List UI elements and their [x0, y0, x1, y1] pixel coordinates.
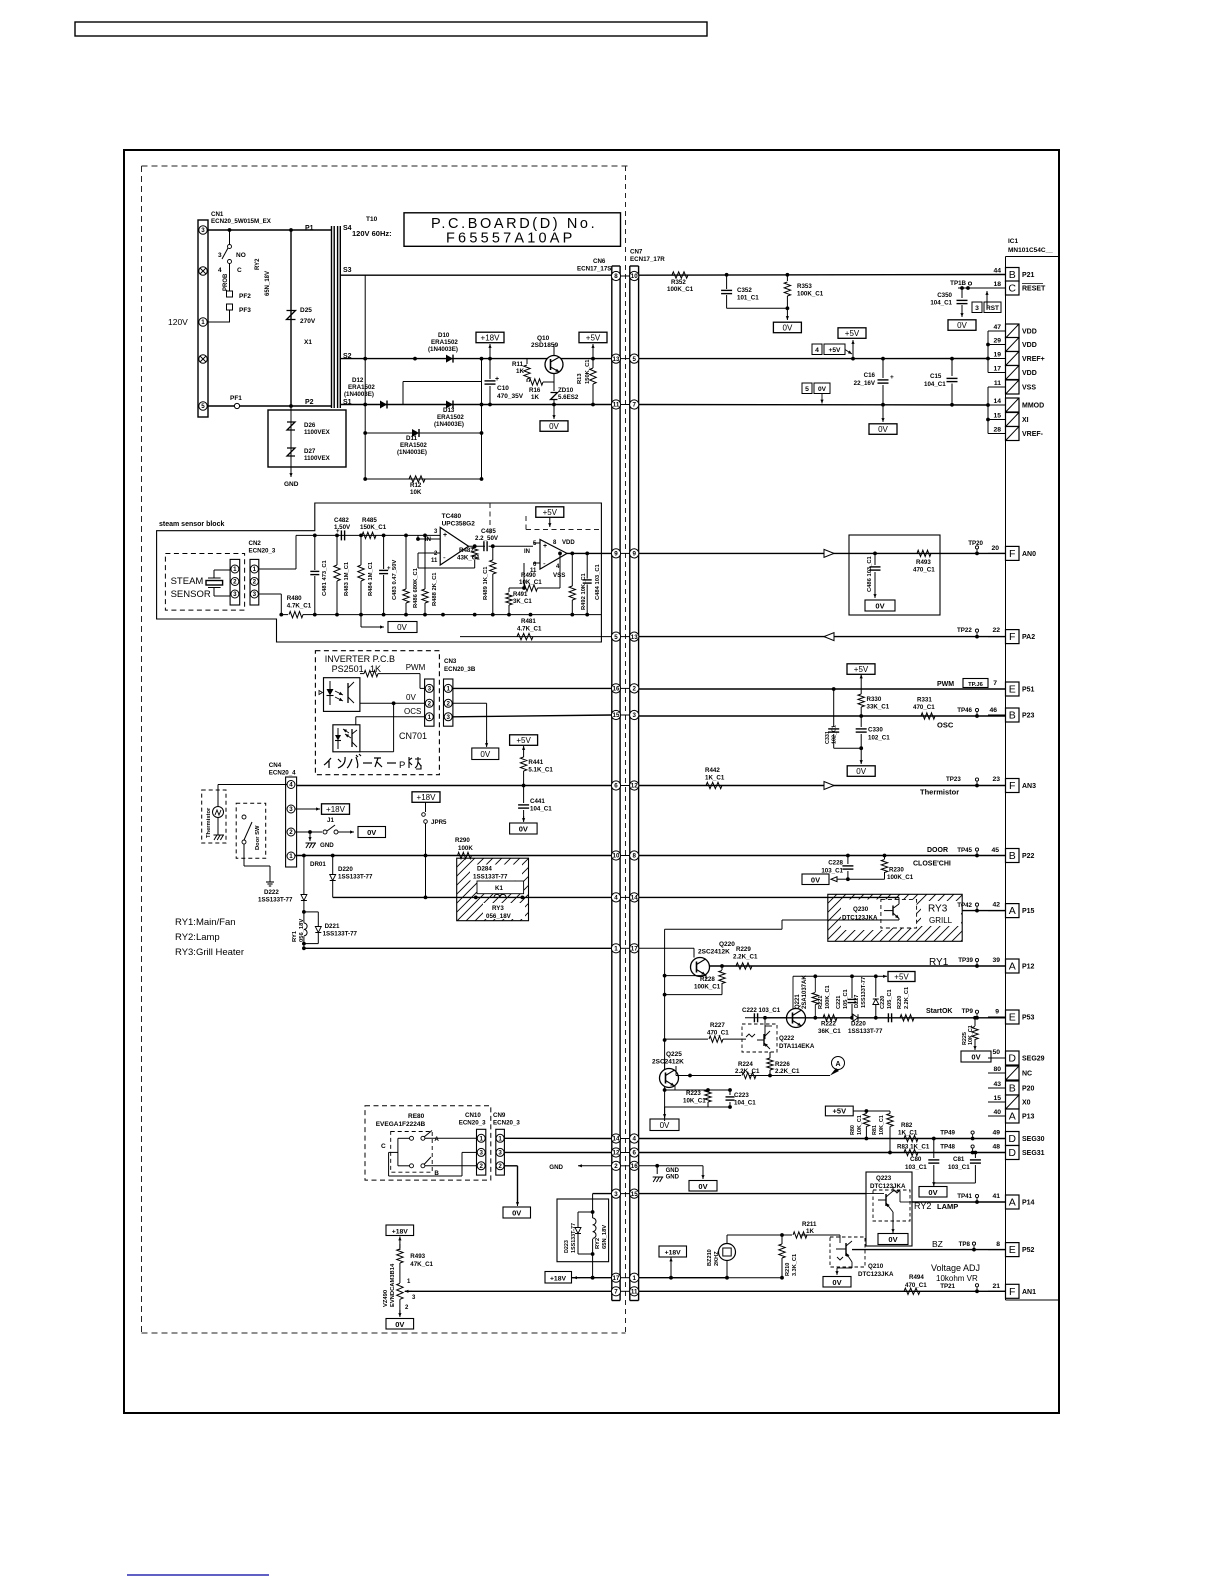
svg-text:TP48: TP48 [940, 1144, 955, 1151]
capacitor C15 104_C1 [924, 359, 958, 405]
svg-text:PS2501: PS2501 [332, 664, 364, 674]
diode D12 ERA1502 (1N4003E) [344, 377, 387, 409]
buzzer BZ210 2KHZ [707, 1235, 736, 1278]
svg-text:C: C [1008, 283, 1016, 295]
svg-text:ECN17_17R: ECN17_17R [630, 256, 665, 263]
svg-text:1SS133T-77: 1SS133T-77 [323, 931, 358, 938]
svg-text:IC1: IC1 [1008, 238, 1019, 245]
svg-text:4.7K_C1: 4.7K_C1 [287, 603, 312, 610]
label OSC [937, 707, 997, 730]
svg-text:43: 43 [993, 1081, 1001, 1088]
svg-text:12: 12 [631, 783, 638, 790]
svg-text:F: F [1009, 780, 1015, 792]
svg-text:2KHZ: 2KHZ [714, 1251, 720, 1266]
bus CN6 ECN17-17S [577, 258, 620, 1301]
svg-text:2SD1859: 2SD1859 [531, 342, 558, 349]
svg-text:10K_C1: 10K_C1 [879, 1115, 885, 1135]
svg-text:100K_C1: 100K_C1 [667, 286, 694, 293]
capacitor C81 103_C1 [934, 1153, 981, 1184]
wire RY1 row left [304, 947, 612, 949]
svg-text:R80: R80 [850, 1125, 856, 1135]
svg-text:SEG31: SEG31 [1022, 1150, 1045, 1157]
svg-text:50: 50 [992, 1049, 1000, 1056]
svg-text:R11: R11 [512, 361, 524, 368]
wire SEG30 row [639, 1137, 1006, 1141]
capacitor C330 102_C1 [856, 716, 891, 750]
svg-text:C80: C80 [910, 1156, 922, 1163]
svg-text:3K_C1: 3K_C1 [513, 599, 532, 605]
svg-text:2SC2412K: 2SC2412K [652, 1059, 684, 1066]
svg-text:BZ: BZ [932, 1239, 943, 1249]
svg-text:C16: C16 [864, 372, 876, 379]
thermistor [206, 785, 224, 841]
svg-text:P: P [399, 760, 405, 771]
power +5V R441 [510, 735, 538, 757]
door switch [242, 815, 274, 886]
resistor R353 100K_C1 [784, 275, 824, 309]
wire PWM jog [410, 674, 425, 689]
svg-text:470_C1: 470_C1 [905, 1282, 927, 1289]
wire Q221 base [765, 1018, 772, 1039]
connector CN9 ECN20-3 [493, 1112, 520, 1175]
svg-text:3: 3 [289, 806, 293, 813]
svg-text:GRILL: GRILL [929, 916, 953, 925]
transistor Q210 DTC123JKA dashed [830, 1235, 894, 1278]
transformer T10 [291, 216, 392, 408]
svg-text:RY2: RY2 [595, 1238, 601, 1249]
svg-text:CN7: CN7 [630, 249, 643, 256]
svg-text:P13: P13 [1022, 1114, 1035, 1121]
svg-text:1100VEX: 1100VEX [304, 429, 331, 436]
svg-text:49: 49 [992, 1130, 1000, 1137]
svg-text:RY1: RY1 [929, 957, 949, 968]
svg-text:P23: P23 [1022, 713, 1035, 720]
box C486/R493 [849, 535, 940, 615]
0V Q210 [823, 1262, 852, 1287]
gnd J1 [306, 832, 335, 849]
opamp top rail [313, 534, 440, 538]
svg-text:VSS: VSS [553, 572, 565, 579]
svg-text:+18V: +18V [550, 1276, 567, 1283]
svg-text:TP41: TP41 [957, 1193, 972, 1200]
svg-text:CN4: CN4 [269, 762, 282, 769]
svg-text:65N_18V: 65N_18V [265, 271, 271, 296]
arrow PA2 [824, 633, 834, 641]
svg-text:TC480: TC480 [442, 513, 462, 520]
relay inner dashed [391, 1132, 433, 1173]
svg-text:+5V: +5V [854, 665, 869, 674]
capacitor C228 103_C1 [821, 856, 853, 880]
svg-text:3: 3 [428, 686, 432, 693]
svg-text:DOOR: DOOR [927, 847, 948, 854]
svg-text:7: 7 [632, 402, 636, 409]
varistor D27 1100VEX [287, 448, 331, 462]
svg-text:C352: C352 [737, 287, 752, 294]
0V C80 C81 [919, 1182, 947, 1197]
resistor R211 1K [793, 1221, 817, 1238]
steam sensor element [206, 570, 230, 596]
pin 23 AN3 [988, 779, 1036, 793]
resistor R80 10K_C1 [850, 1111, 870, 1140]
svg-text:7: 7 [993, 680, 997, 687]
svg-text:1SS133T-77: 1SS133T-77 [473, 874, 508, 881]
svg-text:C221: C221 [836, 996, 842, 1009]
relay RY2 box [557, 1199, 609, 1262]
svg-text:R223: R223 [686, 1090, 701, 1097]
svg-text:3: 3 [632, 712, 636, 719]
svg-text:65N_18V: 65N_18V [602, 1225, 608, 1249]
svg-text:1K: 1K [531, 394, 539, 401]
svg-text:P1: P1 [305, 225, 314, 232]
tp49 [940, 1130, 1000, 1141]
svg-text:100K_C1: 100K_C1 [694, 984, 721, 991]
test point TP20 [968, 540, 999, 555]
resistor R484 1M_C1 [358, 535, 374, 614]
svg-text:X0: X0 [1022, 1100, 1031, 1107]
svg-text:20: 20 [991, 545, 999, 552]
power +5V opamp [536, 507, 564, 527]
svg-text:1: 1 [428, 714, 432, 721]
svg-text:R442: R442 [705, 767, 720, 774]
pin 9 P53 [988, 1010, 1035, 1024]
svg-text:0V: 0V [928, 1188, 937, 1197]
svg-text:0V: 0V [971, 1053, 980, 1062]
svg-text:steam sensor block: steam sensor block [159, 521, 224, 528]
svg-text:VREF+: VREF+ [1022, 356, 1045, 363]
svg-text:R221: R221 [818, 996, 824, 1009]
svg-text:R227: R227 [710, 1022, 725, 1029]
svg-text:1100VEX: 1100VEX [304, 455, 331, 462]
svg-text:R330: R330 [867, 696, 882, 703]
svg-text:F: F [1009, 1286, 1015, 1298]
resistor R230 100K_C1 [881, 856, 913, 882]
svg-text:15: 15 [993, 1095, 1001, 1102]
transistor Q10 2SD1859 [531, 335, 563, 382]
connector CN10 ECN20-3 [459, 1112, 486, 1175]
svg-text:0V: 0V [480, 750, 490, 759]
svg-text:P22: P22 [1022, 853, 1035, 860]
label INVERTER P.C.B [325, 654, 395, 664]
node A [830, 1057, 845, 1076]
svg-text:103_C1: 103_C1 [905, 1164, 927, 1171]
svg-text:D11: D11 [406, 435, 418, 442]
svg-text:(1N4003E): (1N4003E) [397, 449, 427, 456]
resistor R225 10K_C1 [962, 1016, 978, 1048]
svg-text:R492 10K_C1: R492 10K_C1 [581, 572, 587, 610]
svg-text:80: 80 [993, 1066, 1001, 1073]
capacitor C484 103_C1 [583, 553, 601, 614]
svg-text:ECN20_3B: ECN20_3B [444, 666, 476, 673]
label inverter japanese [324, 754, 421, 771]
capacitor C221 105_C1 [836, 976, 857, 1018]
wire Q220 collector RY1 [709, 957, 1006, 968]
svg-text:CN10: CN10 [465, 1112, 481, 1119]
svg-text:11: 11 [994, 380, 1001, 387]
svg-text:TP.J6: TP.J6 [968, 682, 983, 688]
svg-text:2: 2 [498, 1163, 502, 1170]
svg-text:1: 1 [446, 686, 450, 693]
svg-text:10kohm VR: 10kohm VR [936, 1274, 978, 1283]
bracket VSS group [986, 387, 990, 434]
svg-text:8: 8 [996, 1241, 1000, 1248]
svg-text:C481 473_C1: C481 473_C1 [322, 559, 328, 596]
svg-text:CN9: CN9 [493, 1112, 506, 1119]
svg-text:ECN17_17S: ECN17_17S [577, 266, 611, 273]
svg-text:0V: 0V [395, 1320, 404, 1329]
svg-text:TP42: TP42 [957, 902, 972, 909]
svg-text:IN: IN [524, 549, 530, 555]
svg-text:0V: 0V [406, 693, 416, 702]
svg-text:P21: P21 [1022, 272, 1035, 279]
wire +18V row [571, 1276, 729, 1280]
label PS2501 1K [332, 664, 381, 674]
svg-text:D227: D227 [854, 995, 860, 1008]
svg-text:100K: 100K [458, 845, 473, 852]
svg-text:9: 9 [614, 551, 618, 558]
svg-text:D: D [1008, 1133, 1016, 1145]
svg-text:A: A [1009, 961, 1016, 973]
svg-text:1: 1 [289, 853, 293, 860]
0V below C441 [510, 816, 537, 834]
svg-text:VDD: VDD [1022, 342, 1037, 349]
svg-text:Q230: Q230 [853, 906, 869, 913]
capacitor C350 104_C1 [930, 288, 967, 315]
svg-text:IN: IN [425, 537, 431, 543]
svg-text:RY1: RY1 [292, 930, 298, 942]
resistor R331 470_C1 [913, 697, 935, 720]
svg-text:C81: C81 [953, 1156, 965, 1163]
svg-text:+18V: +18V [665, 1250, 682, 1257]
resistor R489 1K_C1 [483, 546, 496, 614]
header box [75, 22, 707, 36]
svg-text:P52: P52 [1022, 1247, 1035, 1254]
0V in box [865, 583, 895, 611]
resistor R227 470_C1 [665, 1022, 746, 1042]
svg-text:0V: 0V [519, 825, 528, 834]
svg-text:B: B [1009, 710, 1016, 722]
svg-text:CN2: CN2 [249, 540, 262, 547]
bracket VDD group [986, 331, 990, 373]
svg-text:+: + [890, 374, 894, 381]
svg-text:9: 9 [632, 551, 636, 558]
svg-text:R490: R490 [521, 572, 536, 579]
capacitor C352 101_C1 [721, 275, 759, 309]
svg-text:2.2K_C1: 2.2K_C1 [904, 987, 910, 1009]
svg-text:R83 1K_C1: R83 1K_C1 [897, 1144, 930, 1151]
svg-text:29: 29 [993, 338, 1001, 345]
svg-text:C486 103_C1: C486 103_C1 [867, 555, 873, 592]
capacitor C483 0.47_50V [379, 535, 398, 614]
svg-text:2.2K_C1: 2.2K_C1 [733, 954, 758, 961]
svg-text:D25: D25 [300, 307, 312, 314]
svg-text:9: 9 [995, 1009, 999, 1016]
svg-text:40: 40 [993, 1109, 1001, 1116]
svg-text:2: 2 [253, 579, 257, 586]
svg-text:VDD: VDD [1022, 370, 1037, 377]
svg-text:18: 18 [993, 281, 1001, 288]
svg-text:14: 14 [993, 398, 1001, 405]
svg-text:T10: T10 [366, 216, 378, 223]
svg-text:+: + [543, 543, 547, 550]
svg-text:CLOSE'CHI: CLOSE'CHI [913, 861, 951, 868]
IC U1 IC1 MN101C54C [1006, 238, 1060, 1300]
svg-text:0V: 0V [367, 828, 376, 837]
svg-text:48: 48 [992, 1144, 1000, 1151]
svg-text:19: 19 [993, 352, 1001, 359]
resistor R486 680K_C1 [403, 535, 419, 614]
svg-text:10K_C1: 10K_C1 [519, 579, 542, 586]
svg-text:ZD10: ZD10 [558, 387, 574, 394]
svg-text:+5V: +5V [894, 972, 909, 981]
svg-text:10K: 10K [410, 489, 422, 496]
resistor R485 150K_C1 [360, 517, 387, 539]
relay D284 hatched box [394, 858, 592, 921]
resistor R493 47K_C1 [397, 1244, 434, 1283]
svg-text:Q220: Q220 [719, 941, 735, 948]
wire Q221 top [793, 974, 878, 1009]
relay RY3 GRILL hatched box [781, 894, 1017, 941]
wire CN1-5 to P2 (PF1) [208, 395, 292, 409]
wire AN3 row right [639, 785, 1006, 787]
svg-text:PA2: PA2 [1022, 634, 1035, 641]
capacitor C222 103_C1 [742, 1007, 786, 1022]
svg-text:4.7K_C1: 4.7K_C1 [517, 626, 542, 633]
svg-text:TP1B: TP1B [950, 280, 966, 287]
svg-text:14: 14 [631, 895, 638, 902]
resistor R83 1K_C1 [897, 1144, 930, 1156]
svg-text:102_C1: 102_C1 [832, 725, 838, 744]
svg-text:B: B [1009, 1083, 1016, 1095]
svg-text:0V: 0V [783, 323, 793, 332]
svg-text:PWM: PWM [937, 681, 954, 688]
pin 8 P52 [988, 1243, 1035, 1257]
svg-text:R81: R81 [872, 1125, 878, 1135]
svg-text:C485: C485 [481, 528, 496, 535]
resistor R483 1M_C1 [334, 535, 350, 614]
power +5V R330 [847, 664, 875, 683]
svg-text:OCS: OCS [404, 707, 421, 716]
svg-text:Q221: Q221 [795, 994, 801, 1009]
svg-text:DR01: DR01 [310, 861, 326, 868]
wire CN9-2 gnd [503, 1166, 531, 1218]
svg-text:17: 17 [613, 1275, 620, 1282]
wire RESET row [958, 286, 1006, 290]
opamp A input wiring [416, 535, 475, 568]
svg-text:R441: R441 [528, 759, 543, 766]
svg-text:17: 17 [631, 946, 638, 953]
svg-text:RST: RST [986, 305, 999, 312]
resistor R221 100K_C1 [812, 976, 831, 1018]
svg-text:2SA1037AK: 2SA1037AK [802, 975, 808, 1009]
resistor R352 100K_C1 [667, 272, 694, 293]
test point TP22 [957, 627, 1000, 638]
svg-text:VSS: VSS [1022, 385, 1036, 392]
svg-text:41: 41 [992, 1193, 1000, 1200]
svg-text:3: 3 [201, 227, 205, 234]
svg-text:GND: GND [666, 1175, 680, 1181]
svg-text:R13: R13 [577, 373, 583, 384]
svg-text:F65557A10AP: F65557A10AP [446, 231, 576, 247]
svg-text:+: + [495, 376, 499, 383]
svg-text:1SS133T-77: 1SS133T-77 [338, 874, 373, 881]
pin 17 VDD [988, 366, 1037, 380]
svg-text:100K_C1: 100K_C1 [797, 291, 824, 298]
wire opto to 0V line [360, 701, 425, 751]
wire Q220 up [665, 920, 828, 929]
jumper J1 [323, 817, 386, 838]
svg-text:Door SW: Door SW [255, 825, 261, 850]
svg-text:10K_C1: 10K_C1 [968, 1025, 974, 1045]
svg-text:150K_C1: 150K_C1 [360, 524, 387, 531]
svg-text:C10: C10 [497, 385, 509, 392]
wire P15 out [957, 902, 1005, 913]
svg-text:VDD: VDD [1022, 329, 1037, 336]
capacitor C10 470_35V [485, 359, 524, 405]
svg-text:StartOK: StartOK [926, 1008, 952, 1015]
svg-text:ECN20_3: ECN20_3 [249, 548, 276, 555]
svg-text:16: 16 [631, 1163, 638, 1170]
label PWM P51 [937, 679, 997, 689]
svg-text:VREF-: VREF- [1022, 431, 1044, 438]
pin 29 VDD [988, 338, 1037, 352]
svg-text:6: 6 [614, 783, 618, 790]
resistor R229 2.2K_C1 [733, 946, 758, 969]
svg-text:TP39: TP39 [958, 957, 973, 964]
svg-text:5: 5 [614, 634, 618, 641]
svg-text:R486 680K_C1: R486 680K_C1 [413, 567, 419, 608]
svg-text:3: 3 [614, 1191, 618, 1198]
wire Q225 emitter [663, 1085, 675, 1092]
svg-text:A: A [835, 1061, 840, 1068]
box D26 D27 [268, 410, 346, 467]
steam sensor dashed box [165, 554, 244, 611]
svg-text:R481: R481 [521, 618, 536, 625]
resistor R487 43K_C1 [457, 544, 485, 561]
svg-text:0V: 0V [878, 425, 888, 434]
svg-text:2: 2 [446, 701, 450, 708]
svg-text:P2: P2 [305, 399, 314, 406]
svg-text:470_C1: 470_C1 [707, 1030, 729, 1037]
svg-text:3.3K_C1: 3.3K_C1 [792, 1254, 798, 1276]
bus pin markers [611, 271, 638, 1296]
resistor R481 4.7K_C1 [517, 618, 542, 640]
svg-text:47K_C1: 47K_C1 [410, 1261, 433, 1268]
svg-text:Q10: Q10 [537, 335, 550, 342]
svg-text:R493: R493 [410, 1253, 425, 1260]
power +5V SEG [825, 1106, 890, 1116]
svg-text:5: 5 [201, 403, 205, 410]
label DR01 [310, 861, 326, 868]
svg-text:12: 12 [613, 1150, 620, 1157]
svg-text:0V: 0V [856, 767, 866, 776]
svg-text:46: 46 [989, 707, 997, 714]
pin 42 P15 [988, 904, 1035, 918]
svg-text:22: 22 [992, 627, 1000, 634]
wire P23 row [639, 714, 1006, 718]
svg-text:4: 4 [289, 782, 293, 789]
svg-text:(1N4003E): (1N4003E) [428, 346, 458, 353]
svg-text:R226: R226 [775, 1061, 790, 1068]
svg-text:8: 8 [614, 273, 618, 280]
wire P15 row [639, 896, 828, 898]
svg-text:0V: 0V [660, 1121, 670, 1130]
svg-text:R290: R290 [455, 837, 470, 844]
pin 19 VREF+ [988, 352, 1045, 366]
svg-text:14: 14 [613, 1136, 620, 1143]
svg-text:R211: R211 [802, 1221, 817, 1228]
svg-text:0V: 0V [818, 386, 827, 393]
svg-text:R485: R485 [362, 517, 377, 524]
